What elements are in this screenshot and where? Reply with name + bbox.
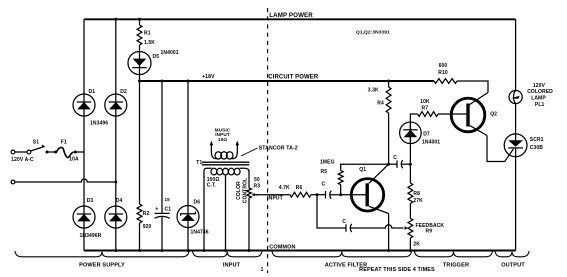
svg-text:3.3K: 3.3K: [368, 87, 379, 93]
wire center tap to common: [225, 175, 227, 250]
zener diode D6: [177, 206, 199, 228]
svg-text:1: 1: [261, 267, 264, 273]
switch S1 lever: [31, 145, 45, 151]
node +18V R4 junction: [387, 80, 390, 83]
resistor R1: [137, 25, 142, 45]
diode D3: [73, 206, 95, 228]
node trigger column junction: [409, 163, 412, 166]
transformer T1 primary arrow left: [210, 141, 214, 146]
svg-text:CIRCUIT POWER: CIRCUIT POWER: [268, 75, 319, 81]
wire top rail right drop: [515, 19, 517, 90]
potentiometer R9: [408, 218, 413, 238]
resistor R4: [386, 87, 391, 113]
wire trigger node to D7: [409, 122, 411, 164]
wire gate diagonal: [505, 149, 514, 162]
Q2 collector lead: [470, 93, 488, 105]
node R3 common junction: [248, 249, 251, 252]
wire R9 to common: [409, 238, 411, 251]
svg-text:TRIGGER: TRIGGER: [443, 263, 469, 269]
diode D4: [105, 206, 127, 228]
svg-text:SCR1: SCR1: [530, 137, 544, 143]
wire +18V to R2: [139, 81, 141, 204]
svg-text:600: 600: [439, 63, 448, 69]
svg-text:10K: 10K: [420, 99, 430, 105]
fuse F1: [57, 147, 74, 157]
wire D5 to +18V rail: [139, 75, 141, 81]
node center-tap common junction: [224, 249, 227, 252]
wire D7 to R7: [410, 114, 417, 122]
capacitor C feedback: [346, 224, 352, 232]
node +18V D6 junction: [187, 80, 190, 83]
wire R5 top to collector node: [341, 164, 389, 170]
node Q1 emitter common junction: [387, 249, 390, 252]
svg-text:2K: 2K: [413, 241, 420, 247]
transformer T1 primary coil: [211, 144, 237, 159]
svg-text:R2: R2: [143, 211, 150, 217]
R9 wiper arrow: [405, 226, 408, 230]
svg-text:D2: D2: [120, 89, 127, 95]
svg-text:R7: R7: [422, 106, 429, 112]
svg-text:10A: 10A: [69, 157, 79, 163]
svg-text:Q1,Q2:3N3391: Q1,Q2:3N3391: [356, 30, 390, 36]
wire SCR cathode to common: [515, 157, 517, 251]
svg-text:S1: S1: [33, 139, 39, 145]
wire cap to Q1 base: [330, 194, 366, 196]
svg-text:C.T.: C.T.: [207, 182, 217, 188]
capacitor C input coupling: [326, 191, 332, 199]
wire +18V circuit-power rail: [140, 80, 435, 82]
wire secondary right to R3: [248, 171, 250, 189]
brace POWER SUPPLY: [15, 251, 189, 257]
svg-text:F1: F1: [61, 139, 67, 145]
svg-text:R1: R1: [144, 30, 151, 36]
dashed section separator line: [267, 8, 269, 273]
node AC2 bridge junction: [114, 181, 117, 184]
wire +18V to D6: [187, 81, 189, 206]
node +18V C1 junction: [161, 80, 164, 83]
wire D2-D4 link: [115, 116, 117, 206]
svg-text:T1: T1: [196, 160, 202, 166]
svg-text:1MEG: 1MEG: [320, 160, 335, 166]
svg-text:OUTPUT: OUTPUT: [501, 263, 525, 269]
wire D4-common link: [115, 228, 117, 251]
svg-text:1N4001: 1N4001: [161, 50, 179, 56]
wire D1-D3 link: [83, 116, 85, 206]
wire fuse to bridge: [75, 151, 84, 153]
wire Q1 emitter to common: [388, 214, 390, 251]
svg-text:R4: R4: [377, 100, 384, 106]
svg-text:COLOR: COLOR: [236, 181, 242, 200]
wire R8 to R9: [409, 204, 411, 219]
lamp PL1: [509, 90, 522, 103]
diode D1: [73, 94, 95, 116]
wire cap to trigger node: [401, 163, 410, 165]
svg-text:D7: D7: [423, 132, 430, 138]
wire D1 column: [83, 19, 85, 94]
svg-text:1N3496: 1N3496: [90, 120, 108, 126]
switch S1 pivot: [27, 150, 31, 154]
wire fuse link: [47, 151, 56, 153]
wire AC line 2 with hop: [15, 179, 116, 182]
resistor R7: [418, 112, 438, 117]
svg-text:D4: D4: [116, 198, 123, 204]
svg-text:D1: D1: [89, 89, 96, 95]
wire wiper to R6: [256, 194, 290, 196]
svg-text:COMMON: COMMON: [269, 244, 295, 250]
svg-text:+18V: +18V: [202, 74, 215, 80]
svg-text:LAMP POWER: LAMP POWER: [269, 12, 313, 19]
svg-text:R10: R10: [438, 70, 448, 76]
svg-text:Q2: Q2: [490, 111, 497, 117]
transistor Q1: [351, 179, 383, 211]
Q2 emitter lead: [470, 126, 487, 136]
node collector cap junction: [387, 163, 390, 166]
svg-text:C30B: C30B: [530, 145, 543, 151]
node top rail D2 junction: [114, 18, 117, 21]
svg-text:Q1: Q1: [359, 167, 366, 173]
wire +18V to C1: [161, 81, 163, 213]
svg-text:+: +: [155, 207, 158, 213]
svg-text:INPUT: INPUT: [267, 195, 283, 201]
transformer T1 secondary coil: [204, 168, 249, 177]
wire secondary left to common: [203, 176, 205, 251]
resistor R6: [290, 192, 311, 197]
svg-text:PL1: PL1: [535, 102, 545, 108]
node R9 common junction: [409, 249, 412, 252]
node fuse clip right: [74, 151, 77, 154]
svg-text:C: C: [322, 182, 326, 188]
node R2 common junction: [138, 249, 141, 252]
wire R2 to common: [139, 223, 141, 251]
wire bottom common rail: [84, 250, 516, 252]
svg-text:1N3496R: 1N3496R: [80, 233, 102, 239]
svg-text:15: 15: [165, 197, 171, 202]
brace ACTIVE FILTER: [272, 251, 412, 257]
diode D2: [105, 94, 127, 116]
transformer T1 primary arrow right: [236, 141, 240, 146]
svg-text:120V A-C: 120V A-C: [11, 157, 34, 163]
Q1 collector lead: [369, 164, 389, 183]
node R5 base junction: [339, 193, 342, 196]
R3 wiper arrow: [252, 193, 258, 196]
svg-text:INPUT: INPUT: [223, 263, 241, 269]
svg-text:C: C: [342, 219, 346, 225]
svg-text:27K: 27K: [413, 198, 423, 204]
brace TRIGGER: [415, 251, 493, 257]
capacitor C collector coupling: [397, 160, 403, 168]
potentiometer R3: [247, 188, 252, 198]
wire R7 to Q2 base: [438, 113, 466, 115]
wire feedback cap to wiper with hop: [350, 225, 403, 228]
resistor R10: [434, 79, 457, 84]
resistor R2: [137, 204, 142, 223]
brace INPUT: [193, 251, 263, 257]
resistor R5: [338, 171, 343, 185]
wire rail to R1: [139, 19, 141, 25]
svg-text:REPEAT THIS SIDE 4 TIMES: REPEAT THIS SIDE 4 TIMES: [359, 267, 435, 273]
terminal AC line 1: [11, 150, 15, 154]
svg-text:920: 920: [143, 224, 152, 230]
wire Q2 emitter down: [487, 136, 505, 162]
node top rail R1 junction: [138, 18, 141, 21]
node C1 common junction: [161, 249, 164, 252]
wire D3-common link: [83, 228, 85, 251]
wire C1 to common: [161, 217, 163, 251]
svg-text:R3: R3: [254, 184, 261, 190]
wire R6 to cap: [311, 194, 326, 196]
pointer line to STANCOR: [241, 148, 258, 156]
node secondary-left common junction: [203, 249, 206, 252]
svg-text:D6: D6: [194, 199, 201, 205]
svg-text:1.5K: 1.5K: [144, 40, 155, 46]
svg-text:D5: D5: [153, 54, 160, 60]
wire top lamp-power rail: [84, 18, 516, 20]
transformer T1 core: [202, 162, 249, 165]
svg-text:CONTROL: CONTROL: [243, 178, 249, 203]
wire D6 to common: [187, 228, 189, 251]
wire R10 to Q2 collector: [457, 81, 488, 93]
svg-text:STANCOR TA-2: STANCOR TA-2: [259, 145, 298, 151]
transistor Q2: [451, 98, 485, 132]
node Q1 base feedback junction: [316, 193, 319, 196]
diode D5: [128, 52, 151, 75]
wire trigger node to R8: [409, 164, 411, 183]
wire terminal to switch: [15, 151, 27, 153]
svg-text:1N4001: 1N4001: [422, 140, 440, 146]
svg-text:R9: R9: [426, 228, 433, 234]
terminal AC line 2: [11, 180, 15, 184]
svg-text:1N4746: 1N4746: [191, 229, 209, 235]
svg-text:R8: R8: [413, 191, 420, 197]
svg-text:LAMP: LAMP: [531, 96, 546, 102]
wire R4 to collector node: [388, 113, 390, 164]
capacitor C1: [155, 213, 170, 218]
wire +18V to R4: [388, 81, 390, 87]
node fuse clip mid: [54, 151, 57, 154]
svg-text:D3: D3: [87, 198, 94, 204]
diode D7: [400, 122, 422, 144]
svg-text:120V: 120V: [533, 83, 546, 89]
wire R5 bottom lead: [340, 185, 342, 195]
svg-text:COLORED: COLORED: [527, 89, 553, 95]
Q1 emitter lead: [369, 206, 389, 213]
svg-text:10Ω: 10Ω: [218, 137, 227, 142]
svg-text:C: C: [393, 155, 397, 161]
svg-text:C1: C1: [165, 206, 172, 212]
node D6 common junction: [187, 249, 190, 252]
wire R1 to D5: [139, 45, 141, 51]
SCR1: [504, 134, 527, 157]
svg-text:R6: R6: [296, 185, 303, 191]
brace OUTPUT: [495, 251, 529, 257]
resistor R8: [408, 183, 413, 204]
wire lamp to SCR: [515, 103, 517, 134]
wire collector node to cap: [389, 163, 397, 165]
wire D2 column: [115, 19, 117, 94]
node fuse clip left: [46, 151, 49, 154]
wire R3 to common: [248, 198, 250, 251]
svg-text:4.7K: 4.7K: [279, 185, 290, 191]
node D4 common junction: [114, 249, 117, 252]
svg-text:R5: R5: [321, 169, 328, 175]
svg-text:POWER SUPPLY: POWER SUPPLY: [79, 263, 125, 269]
svg-text:50: 50: [254, 177, 260, 183]
node +18V R2 junction: [138, 80, 141, 83]
wire base node down: [317, 195, 346, 228]
